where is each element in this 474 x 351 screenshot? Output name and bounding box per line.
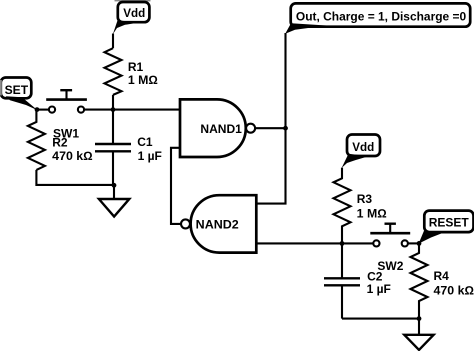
svg-text:RESET: RESET	[429, 216, 470, 230]
wire Vdd1 to R1 top	[112, 34, 114, 49]
svg-text:C1: C1	[137, 135, 153, 149]
wire NAND2 lower input to R3/C2 junction	[256, 242, 342, 244]
resistor R4	[411, 243, 428, 318]
wire NAND1 output to vertical bus	[255, 127, 285, 129]
wire vertical bus from Out to NAND2 upper input	[256, 33, 285, 204]
NAND gate U2 "NAND2" (mirrored, output on left)	[181, 195, 256, 252]
node R1/C1 junction	[111, 107, 116, 112]
ground (right)	[404, 319, 433, 350]
svg-text:R3: R3	[357, 192, 373, 206]
net label Vdd (right)	[342, 135, 380, 169]
net label SET	[0, 78, 38, 111]
svg-text:R4: R4	[434, 269, 450, 283]
svg-text:Vdd: Vdd	[123, 6, 145, 20]
wire SW2 to RESET junction	[408, 242, 419, 244]
svg-text:1 µF: 1 µF	[367, 282, 391, 296]
wire R1 bottom lead	[112, 95, 114, 110]
NAND gate U1 "NAND1"	[180, 99, 255, 157]
node RESET junction	[417, 241, 422, 246]
svg-text:470 kΩ: 470 kΩ	[52, 149, 92, 163]
node C1/R2 ground junction	[112, 183, 117, 188]
net label Vdd (top left)	[113, 2, 150, 34]
svg-text:1 MΩ: 1 MΩ	[357, 206, 387, 220]
ground (left)	[99, 185, 129, 216]
capacitor C1	[95, 110, 131, 186]
net label RESET	[419, 211, 474, 244]
cropped artifact grey bar above Vdd1 label	[115, 0, 151, 1]
resistor R1	[105, 48, 122, 95]
resistor R3	[334, 168, 351, 244]
label R4 value	[434, 269, 474, 298]
wire R2 bottom to ground junction	[36, 170, 114, 185]
label C2 value	[367, 270, 391, 297]
wire C2 bottom to R4 bottom junction	[342, 318, 419, 320]
label R2 value	[52, 135, 92, 163]
svg-text:NAND2: NAND2	[196, 217, 239, 231]
svg-text:1 µF: 1 µF	[138, 149, 162, 163]
node SET junction	[35, 107, 40, 112]
label C1 value	[137, 135, 162, 163]
svg-text:Out, Charge = 1, Discharge =0: Out, Charge = 1, Discharge =0	[296, 10, 467, 24]
wire NAND1 lower input feedback	[171, 148, 181, 224]
wire SET junction to SW1	[37, 109, 49, 111]
label R3 value	[357, 192, 387, 220]
svg-text:470 kΩ: 470 kΩ	[434, 284, 474, 298]
svg-text:NAND1: NAND1	[200, 122, 242, 136]
capacitor C2	[324, 243, 360, 318]
switch SW2 (pushbutton)	[370, 224, 410, 247]
node R3/C2 junction	[340, 241, 345, 246]
svg-text:SET: SET	[5, 83, 29, 97]
net label Out flag	[285, 3, 470, 33]
node NAND1 output junction	[283, 126, 288, 131]
svg-text:1 MΩ: 1 MΩ	[128, 73, 158, 87]
wire junction to SW2	[342, 242, 373, 244]
svg-text:R2: R2	[52, 135, 68, 149]
svg-text:R1: R1	[128, 60, 144, 74]
resistor R2	[28, 110, 45, 170]
wire SW1 to NAND1 upper input	[84, 109, 180, 111]
label R1 value	[128, 60, 158, 87]
svg-text:Vdd: Vdd	[352, 140, 374, 154]
node R4/C2 ground junction	[417, 316, 422, 321]
switch SW1 (pushbutton)	[46, 90, 87, 113]
